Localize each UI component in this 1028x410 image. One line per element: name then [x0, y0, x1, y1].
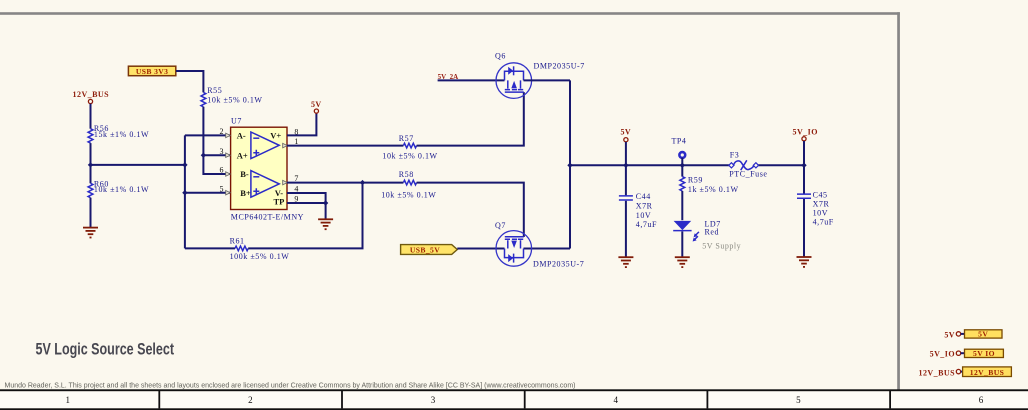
power port 5V (rail): [620, 127, 631, 141]
svg-text:10k ±5% 0.1W: 10k ±5% 0.1W: [381, 190, 436, 199]
wire rail to C44: [625, 165, 627, 195]
wire output vertical: [569, 80, 571, 248]
svg-text:5V_IO: 5V_IO: [793, 128, 818, 137]
wire pin9 to ground: [287, 203, 326, 219]
wire pin8 to 5V port: [287, 113, 316, 135]
svg-text:V+: V+: [270, 131, 281, 141]
power port 5V_IO: [793, 128, 818, 141]
test point TP4: [672, 137, 687, 158]
junction rail/C45: [801, 163, 806, 168]
wire rail after fuse: [758, 164, 804, 166]
wire pin4 to ground vertical: [287, 193, 326, 203]
svg-text:TP: TP: [274, 197, 285, 207]
capacitor C44: [619, 192, 657, 229]
junction line A at pin5 row: [182, 190, 187, 195]
wire pin5 branch: [185, 192, 231, 194]
wire rail to C45: [803, 165, 805, 193]
op-amp A triangle: [251, 132, 279, 159]
junction rail/R59: [680, 163, 685, 168]
svg-text:A+: A+: [237, 150, 248, 160]
svg-text:12V_BUS: 12V_BUS: [919, 368, 956, 377]
MIDDLE SECTION: [185, 51, 585, 268]
svg-text:4,7uF: 4,7uF: [636, 220, 657, 229]
off-sheet connector 5V: [944, 330, 1002, 340]
svg-text:DMP2035U-7: DMP2035U-7: [534, 62, 585, 71]
junction on line B at pin3 row: [201, 153, 206, 158]
svg-text:100k ±5% 0.1W: 100k ±5% 0.1W: [230, 252, 290, 261]
op-amp U7 MCP6402T-E/MNY: [220, 117, 305, 222]
svg-text:5V: 5V: [944, 330, 955, 339]
svg-text:10k ±1% 0.1W: 10k ±1% 0.1W: [94, 185, 149, 194]
resistor R56: [88, 124, 149, 143]
svg-text:15k ±1% 0.1W: 15k ±1% 0.1W: [94, 130, 149, 139]
svg-text:R59: R59: [688, 176, 703, 185]
svg-text:C44: C44: [636, 192, 651, 201]
LED LD7: [673, 220, 741, 251]
transistor Q7 DMP2035U-7: [495, 221, 584, 269]
svg-text:R58: R58: [399, 170, 414, 179]
wire C44 to ground: [625, 201, 627, 257]
LEFT SECTION: [73, 66, 334, 248]
wire line A vertical (feedback net): [184, 135, 186, 248]
svg-text:3: 3: [431, 395, 436, 405]
ground under C44: [618, 257, 633, 267]
svg-text:F3: F3: [730, 150, 740, 159]
svg-text:5V IO: 5V IO: [973, 349, 995, 358]
svg-text:4: 4: [613, 395, 618, 405]
svg-text:5: 5: [796, 395, 801, 405]
transistor Q6 DMP2035U-7: [495, 51, 585, 98]
svg-text:3: 3: [220, 147, 224, 156]
wire divider node row: [91, 164, 185, 166]
wire Q6 drain to output vertical: [524, 79, 571, 81]
svg-text:Q6: Q6: [495, 51, 506, 60]
svg-text:5V: 5V: [311, 100, 322, 109]
junction output/rail: [567, 163, 572, 168]
wire 5V port to rail: [625, 142, 627, 165]
wire TP4 to rail: [681, 158, 683, 166]
ground under U7 pins 4/9: [318, 219, 333, 229]
svg-text:5V: 5V: [978, 330, 988, 339]
junction pin7 row / R61: [360, 180, 365, 185]
fuse F3 PTC_Fuse: [729, 150, 768, 178]
svg-text:TP4: TP4: [672, 137, 687, 146]
resistor R59: [680, 176, 739, 194]
svg-text:1k ±5% 0.1W: 1k ±5% 0.1W: [688, 185, 739, 194]
svg-text:5V_IO: 5V_IO: [930, 350, 955, 359]
wire R58 to Q7 gate: [417, 183, 524, 237]
svg-text:10V: 10V: [813, 208, 828, 217]
wire pin3 branch: [203, 154, 230, 156]
wire USB_5V to Q7 source: [457, 248, 504, 250]
svg-text:10V: 10V: [636, 211, 651, 220]
svg-text:6: 6: [979, 395, 984, 405]
junction divider node: [88, 162, 93, 167]
op-amp B triangle: [251, 171, 279, 198]
svg-text:5V: 5V: [620, 127, 631, 136]
svg-text:1: 1: [65, 395, 70, 405]
off-sheet connector 12V_BUS: [919, 367, 1012, 377]
svg-text:R55: R55: [207, 86, 222, 95]
resistor R61: [230, 237, 290, 261]
wire 5V_IO to rail: [803, 141, 805, 165]
wire pin1 to R57: [287, 145, 403, 147]
wire R57 to Q6 gate: [417, 92, 524, 146]
wire R60 to ground: [90, 198, 92, 228]
junction pin4/pin9: [323, 200, 328, 205]
svg-text:U7: U7: [231, 117, 242, 126]
wire pin7 to R58: [287, 182, 403, 184]
resistor R57: [382, 134, 437, 160]
wire 5V_2A to Q6 source: [438, 79, 505, 81]
svg-text:R61: R61: [230, 237, 245, 246]
wire 12V_BUS to R56: [90, 104, 92, 129]
RIGHT SECTION: [570, 127, 1011, 377]
svg-text:B+: B+: [240, 188, 251, 198]
port USB_5V: [401, 245, 458, 255]
svg-text:MCP6402T-E/MNY: MCP6402T-E/MNY: [231, 212, 304, 221]
svg-text:DMP2035U-7: DMP2035U-7: [533, 259, 584, 268]
wire R55 down to pin6 corner (line B): [203, 107, 230, 174]
svg-text:2: 2: [248, 395, 253, 405]
wire LD7 to ground: [681, 232, 683, 258]
junction rail/C44: [623, 163, 628, 168]
svg-text:5: 5: [220, 184, 224, 193]
ground under LD7: [675, 257, 690, 267]
svg-text:5V Logic Source Select: 5V Logic Source Select: [36, 340, 175, 359]
wire USB_3V3 to R55: [176, 71, 203, 92]
ground under R60: [83, 228, 98, 238]
svg-text:6: 6: [220, 166, 224, 175]
svg-text:X7R: X7R: [636, 202, 653, 211]
svg-text:10k ±5% 0.1W: 10k ±5% 0.1W: [382, 152, 437, 161]
wire pin2 branch: [185, 134, 231, 136]
resistor R55: [201, 86, 263, 107]
svg-text:X7R: X7R: [813, 199, 830, 208]
svg-text:2: 2: [220, 127, 224, 136]
svg-text:Q7: Q7: [495, 221, 506, 230]
wire R59 to LD7: [681, 191, 683, 220]
svg-text:Mundo Reader, S.L. This projec: Mundo Reader, S.L. This project and all …: [5, 383, 576, 390]
capacitor C45: [797, 190, 834, 226]
svg-text:PTC_Fuse: PTC_Fuse: [729, 170, 767, 179]
svg-text:USB_5V: USB_5V: [410, 245, 440, 254]
svg-text:12V_BUS: 12V_BUS: [970, 368, 1004, 377]
svg-text:12V_BUS: 12V_BUS: [73, 90, 110, 99]
svg-text:5V Supply: 5V Supply: [702, 242, 741, 251]
wire C45 to ground: [803, 199, 805, 257]
pin arrows left: [226, 133, 288, 195]
resistor R60: [88, 179, 149, 197]
wire rail to R59: [681, 165, 683, 176]
svg-text:C45: C45: [813, 190, 828, 199]
wire 5V rail: [570, 164, 729, 166]
junction line A at divider row: [182, 162, 187, 167]
port USB_3V3: [128, 66, 175, 76]
wire R56 to R60 through node: [90, 143, 92, 183]
power port 5V (above U7): [311, 100, 322, 113]
resistor R58: [381, 170, 436, 199]
svg-text:A-: A-: [237, 131, 246, 141]
wire R61 up to pin7 row: [248, 183, 362, 249]
svg-text:B-: B-: [240, 169, 249, 179]
svg-text:4,7uF: 4,7uF: [813, 218, 834, 227]
wire line A to R61: [185, 247, 235, 249]
power port 12V_BUS: [73, 90, 110, 104]
off-sheet connector 5V_IO: [930, 349, 1004, 358]
svg-text:Red: Red: [705, 228, 720, 237]
wire output vertical to Q7 drain: [524, 248, 571, 250]
svg-text:10k ±5% 0.1W: 10k ±5% 0.1W: [207, 95, 262, 104]
svg-text:R57: R57: [399, 134, 414, 143]
svg-text:USB 3V3: USB 3V3: [136, 67, 169, 76]
ground under C45: [797, 257, 812, 267]
